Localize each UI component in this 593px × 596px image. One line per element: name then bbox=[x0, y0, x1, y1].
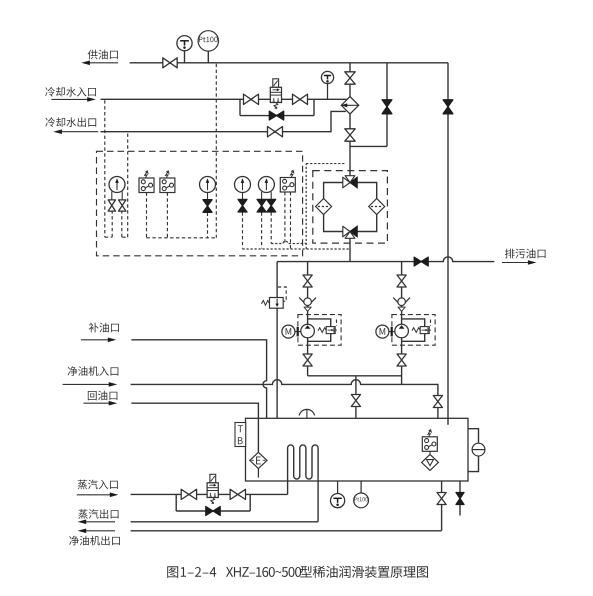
valve on cooling outlet bbox=[268, 127, 283, 137]
steam inlet arrow bbox=[77, 494, 111, 496]
check valve of pump P1 bbox=[299, 298, 316, 307]
steam inlet label 蒸汽入口 bbox=[78, 480, 118, 490]
steam outlet label 蒸汽出口 bbox=[78, 509, 118, 519]
filter bridge dashed enclosure bbox=[313, 171, 388, 244]
discharge valve of pump P1 bbox=[303, 354, 312, 366]
filled valve on riser x=387 bbox=[382, 100, 392, 114]
filled bypass valve on steam line bbox=[206, 507, 220, 516]
back-pressure relief valve bbox=[270, 298, 284, 309]
relief valve pilot dashes of pump P1 bbox=[336, 320, 338, 327]
temperature control valve CV1 bbox=[270, 79, 281, 109]
steam outlet arrow bbox=[85, 521, 115, 523]
suction valve of pump P1 bbox=[303, 275, 312, 287]
instrument panel dashed box bbox=[97, 151, 303, 256]
suction valve of pump P2 bbox=[397, 275, 406, 287]
level switch LS in tank bbox=[429, 451, 431, 454]
valve on supply line bbox=[163, 58, 177, 68]
wire: right header x=448 (supply to tank) bbox=[447, 63, 449, 425]
relief valve branch wires of pump P1 bbox=[308, 319, 331, 341]
wire: cooling inlet bypass line bbox=[240, 115, 314, 117]
pump circle of pump P1 bbox=[301, 324, 315, 338]
valve on cooling inlet (right) bbox=[293, 94, 308, 104]
gauge PG2 with gauge valve bbox=[207, 213, 209, 238]
cooling water outlet arrow bbox=[61, 131, 98, 133]
pump circle of pump P2 bbox=[395, 324, 409, 338]
thermometer/level TB box on tank bbox=[235, 423, 246, 447]
filled valve on right header bbox=[443, 100, 453, 114]
thermometer T3 under tank bbox=[337, 481, 339, 494]
breather vent on tank top bbox=[299, 409, 314, 415]
E filter (return line strainer) bbox=[250, 452, 267, 468]
dashed impulse line from supply line to instrument panel bbox=[215, 64, 217, 238]
waste oil port arrow bbox=[502, 262, 529, 264]
steam temperature control valve CV2 bbox=[207, 474, 218, 504]
differential pressure switch PS3 bbox=[285, 192, 291, 249]
level indicator gauge on tank side bbox=[468, 429, 479, 472]
cooling water outlet label 冷却水出口 bbox=[45, 117, 96, 127]
makeup oil arrow bbox=[81, 339, 109, 341]
oil return port label 回油口 bbox=[88, 391, 118, 401]
supply port label 供油口 bbox=[88, 50, 118, 60]
discharge valve of pump P2 bbox=[397, 354, 406, 366]
steam inlet valve (right) bbox=[230, 489, 245, 499]
motor M of pump P2 bbox=[389, 331, 395, 333]
pump P2 dashed enclosure bbox=[392, 315, 435, 346]
purifier outlet label 净油机出口 bbox=[69, 536, 120, 546]
pump P1 dashed enclosure bbox=[298, 315, 341, 346]
wire: manifold riser to tank x=355.9 bbox=[355, 376, 357, 419]
filter F1 (left diamond) bbox=[316, 199, 332, 215]
pressure switch PS2 bbox=[166, 193, 168, 238]
dashed impulse line to filter bridge (lower) bbox=[243, 248, 351, 250]
valve on manifold riser bbox=[351, 395, 360, 407]
relief valve branch wires of pump P2 bbox=[402, 319, 425, 341]
wire: pump P2 suction/discharge column bbox=[401, 262, 403, 385]
wire: cooling inlet bypass right riser bbox=[313, 99, 315, 115]
wire: purifier inlet line with hops bbox=[131, 380, 438, 419]
dashed impulse from cooling inlet to dP gauge bbox=[105, 100, 128, 237]
wire: bridge to drain line bbox=[349, 238, 351, 261]
wire: steam inlet line bbox=[131, 493, 288, 495]
cooling water inlet label 冷却水入口 bbox=[45, 87, 96, 97]
Pt100 sensor under tank bbox=[360, 481, 362, 493]
wire: tank drain stub bbox=[459, 481, 461, 516]
valve on cooling inlet (left) bbox=[244, 94, 259, 104]
relief valve of pump P2 bbox=[420, 327, 429, 334]
dP gauge PG1 isolation valves bbox=[112, 191, 122, 200]
dashed impulse line to filter bridge (upper) bbox=[271, 164, 346, 249]
makeup oil port label 补油口 bbox=[89, 323, 119, 333]
wire: cooler bottom link to x=387 bbox=[350, 145, 387, 147]
cooling water inlet arrow bbox=[51, 98, 88, 100]
filter F2 (right diamond) bbox=[369, 199, 385, 215]
relief valve pilot dashes of pump P2 bbox=[430, 320, 432, 327]
pressure gauge PG1 bbox=[109, 177, 125, 193]
thermometer T2 stub on cooling inlet bbox=[327, 83, 329, 99]
Pt100 sensor on supply line bbox=[207, 51, 209, 63]
wire: E filter stem bbox=[257, 469, 259, 478]
purifier inlet label 净油机入口 bbox=[68, 366, 119, 376]
pilot line of back-pressure valve (dashed) bbox=[278, 287, 286, 301]
wire: steam outlet line bbox=[131, 521, 319, 523]
check valve of pump P2 bbox=[393, 298, 410, 307]
filled valve on drain header bbox=[414, 257, 428, 266]
bypass valve (filled) on cooling inlet bbox=[269, 111, 283, 120]
wire: cooling inlet bypass left riser bbox=[239, 99, 241, 115]
purifier inlet arrow bbox=[63, 383, 110, 385]
wire: makeup oil line and riser bbox=[131, 340, 266, 419]
wire: oil return line down to E filter bbox=[131, 403, 258, 452]
level switch float diamond bbox=[422, 454, 439, 470]
waste oil port label 排污油口 bbox=[505, 249, 546, 259]
wire: riser x=387 from supply line bbox=[386, 63, 388, 147]
wire: cooling water inlet line bbox=[101, 98, 348, 100]
gauge PG3 with valve bbox=[242, 212, 244, 248]
dashed impulse bus to supply tap bbox=[147, 237, 217, 239]
wire: steam bypass bbox=[176, 494, 250, 511]
caption 图1-2-4 XHZ-160~500型稀油润滑装置原理图 bbox=[167, 566, 216, 578]
supply port arrow bbox=[89, 62, 118, 64]
wire: cooler column riser x=350 bbox=[349, 63, 351, 176]
wire: column from drain to tank with back-pressure valve bbox=[276, 262, 278, 419]
wire: purifier outlet drop from tank bbox=[441, 481, 443, 531]
oil tank body bbox=[246, 418, 469, 481]
wire: bridge loop bbox=[324, 183, 377, 232]
pressure switch PS1 bbox=[146, 193, 148, 238]
motor M of pump P1 bbox=[295, 331, 301, 333]
relief valve of pump P1 bbox=[326, 327, 335, 334]
wire: cooling water outlet line bbox=[101, 111, 346, 131]
dP gauge PG4 with two valves bbox=[262, 212, 272, 248]
shutoff valve below cooler bbox=[345, 129, 355, 141]
three-way changeover valve (top) bbox=[343, 177, 350, 188]
shutoff valve above cooler bbox=[345, 72, 355, 84]
three-way changeover valve (bottom) bbox=[343, 226, 350, 237]
thermometer T1 on supply line bbox=[184, 51, 186, 63]
valve on purifier inlet riser bbox=[433, 396, 442, 408]
wire: pump P1 suction/discharge column bbox=[307, 262, 309, 376]
wire: pump suction manifold bbox=[308, 375, 402, 377]
wire: waste oil drain header bbox=[277, 257, 494, 262]
wire: purifier outlet line bbox=[131, 530, 442, 532]
purifier outlet arrow bbox=[85, 530, 115, 532]
valve on purifier outlet drop bbox=[437, 493, 446, 505]
steam inlet valve (left) bbox=[181, 489, 196, 499]
oil return arrow bbox=[84, 402, 110, 404]
filled drain valve on stub bbox=[456, 493, 464, 505]
wire: supply oil line bbox=[130, 62, 448, 64]
cooler (heat exchanger diamond) bbox=[341, 97, 358, 114]
heating coil in tank bbox=[288, 445, 319, 522]
